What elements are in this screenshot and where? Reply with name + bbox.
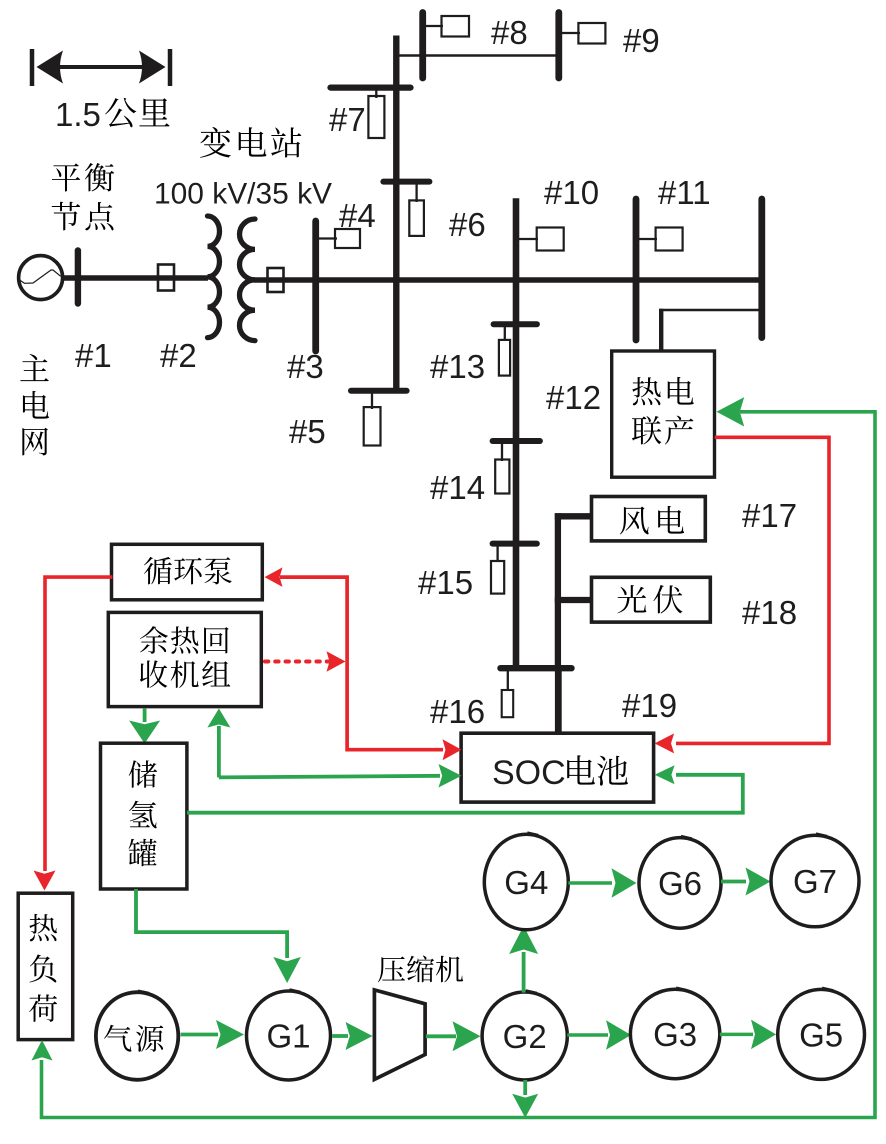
svg-text:G1: G1 bbox=[266, 1018, 310, 1055]
bus #5 bar bbox=[351, 388, 407, 394]
load #15 box bbox=[491, 561, 504, 594]
bus #16/#19 tick bar bbox=[501, 665, 572, 671]
label bian-dian-zhan (substation) bbox=[200, 127, 301, 158]
svg-text:#2: #2 bbox=[160, 337, 197, 374]
load #13 connector bbox=[504, 324, 506, 341]
load #6 connector bbox=[415, 182, 417, 202]
red wire pump to heat load bbox=[45, 577, 112, 871]
load #13 box bbox=[499, 340, 510, 376]
wire CHP to right bus bbox=[659, 309, 663, 352]
svg-text:#7: #7 bbox=[329, 101, 366, 138]
load #5 connector bbox=[371, 391, 373, 409]
load #11 box bbox=[656, 228, 683, 251]
svg-text:#6: #6 bbox=[449, 206, 486, 243]
transformer T1 winding left bbox=[208, 216, 220, 338]
green wire tank bottom to G1 bbox=[136, 889, 287, 958]
green wire+arrow up into waste-heat box bbox=[207, 709, 230, 778]
load #9 connector bbox=[559, 32, 580, 34]
load #7 box bbox=[368, 96, 384, 138]
SOC battery box bbox=[461, 733, 653, 802]
bus #13 tick bar bbox=[494, 321, 537, 327]
svg-text:#8: #8 bbox=[491, 14, 528, 51]
svg-text:SOC: SOC bbox=[492, 754, 566, 792]
svg-text:#17: #17 bbox=[742, 497, 797, 534]
bus #14 tick bar bbox=[493, 438, 540, 444]
green arrow G6 to G7 bbox=[721, 868, 771, 896]
vertical feeder wire bbox=[393, 36, 399, 392]
svg-text:1.5: 1.5 bbox=[55, 96, 101, 133]
load #14 connector bbox=[501, 441, 503, 461]
load #5 box bbox=[364, 407, 381, 445]
green wire to SOC left bbox=[219, 776, 440, 778]
CHP box re-dian-lian-chan bbox=[612, 351, 715, 477]
svg-text:#11: #11 bbox=[658, 174, 711, 211]
svg-text:#12: #12 bbox=[546, 379, 601, 416]
generator symbol (main grid) bbox=[19, 256, 63, 300]
green arrow G3 to G5 bbox=[720, 1020, 776, 1050]
svg-text:G5: G5 bbox=[799, 1016, 843, 1053]
green arrow G2 up to G4 bbox=[509, 926, 538, 993]
gas node G3 bbox=[630, 988, 719, 1079]
load #11 connector bbox=[636, 238, 657, 240]
wind box feng-dian bbox=[592, 497, 706, 541]
svg-text:#1: #1 bbox=[75, 337, 112, 374]
load #16 box bbox=[502, 690, 514, 717]
svg-text:#14: #14 bbox=[430, 469, 485, 506]
label 1.5 gongli bbox=[55, 96, 170, 133]
svg-text:#9: #9 bbox=[623, 22, 660, 59]
breaker square #2 bbox=[158, 265, 174, 291]
load #7 connector bbox=[375, 88, 377, 98]
green arrow into SOC right bbox=[655, 765, 675, 784]
label zhu-dian-wang (main grid) bbox=[20, 354, 49, 455]
red arrow into SOC right bbox=[655, 733, 675, 753]
red arrow into pump right bbox=[265, 567, 283, 587]
gas node G5 bbox=[778, 988, 865, 1080]
green arrow compressor to G2 bbox=[426, 1021, 481, 1051]
gas source circle qi-yuan bbox=[96, 991, 178, 1080]
PV box guang-fu bbox=[592, 577, 711, 622]
breaker square right of transformer bbox=[268, 268, 284, 292]
green arrow into heat load bottom bbox=[32, 1040, 53, 1061]
red arrow into heat load top bbox=[34, 871, 56, 891]
green arrow into SOC left bbox=[439, 764, 462, 788]
svg-text:G4: G4 bbox=[504, 864, 548, 901]
gas node G7 bbox=[771, 834, 859, 927]
green arrow G2 to G3 bbox=[567, 1020, 631, 1050]
bus #1 bar bbox=[75, 251, 81, 304]
svg-text:#18: #18 bbox=[742, 594, 797, 631]
pump box xun-huan-beng bbox=[112, 544, 263, 600]
svg-text:G2: G2 bbox=[503, 1018, 547, 1055]
green arrow waste-heat to hydrogen tank bbox=[129, 708, 160, 744]
load #4 connector bbox=[316, 237, 337, 239]
bus #7 tick bar bbox=[331, 84, 411, 90]
load #4 box bbox=[335, 229, 360, 248]
bus #15 tick bar bbox=[493, 541, 537, 547]
bus #8 bar bbox=[419, 13, 426, 79]
svg-text:#10: #10 bbox=[544, 174, 599, 211]
svg-text:#3: #3 bbox=[287, 348, 324, 385]
svg-text:G7: G7 bbox=[793, 863, 837, 900]
green arrow gas-source to G1 bbox=[181, 1020, 244, 1049]
bus #6 tick bar bbox=[383, 179, 429, 185]
red arrow into SOC left bbox=[443, 739, 462, 760]
gas node G1 bbox=[247, 990, 331, 1081]
svg-text:#15: #15 bbox=[418, 564, 473, 601]
transformer T1 winding right bbox=[240, 219, 256, 341]
wire transformer to bus 3 bbox=[254, 277, 762, 283]
svg-text:100 kV/35 kV: 100 kV/35 kV bbox=[154, 178, 332, 211]
load #6 box bbox=[409, 200, 424, 236]
load #8 box bbox=[442, 16, 470, 37]
green bottom return wire bbox=[42, 412, 876, 1118]
hydrogen tank box chu-qing-guan bbox=[101, 743, 187, 889]
load #9 box bbox=[578, 23, 605, 44]
scale bar 1.5km bbox=[32, 49, 170, 86]
right end bus bar bbox=[758, 199, 765, 338]
wire bus to SOC battery bbox=[555, 668, 562, 733]
svg-text:#16: #16 bbox=[430, 693, 485, 730]
gas node G2 bbox=[482, 991, 567, 1081]
feeder bus 10-13-14-15-16 vertical wire bbox=[513, 198, 520, 668]
label ya-suo-ji (compressor) bbox=[378, 956, 463, 983]
svg-text:G3: G3 bbox=[653, 1016, 697, 1053]
load #16 connector bbox=[507, 668, 509, 691]
svg-text:#13: #13 bbox=[430, 348, 485, 385]
svg-text:#4: #4 bbox=[339, 197, 376, 234]
load #10 connector bbox=[516, 238, 538, 240]
load #15 connector bbox=[496, 544, 498, 562]
green arrow G2 down to return wire bbox=[512, 1080, 538, 1118]
green arrow G4 to G6 bbox=[568, 868, 636, 898]
bus #9 bar bbox=[555, 13, 562, 79]
top tie line to bus 9 bbox=[396, 54, 559, 57]
waste heat recovery box yu-re-hui-shou-ji-zu bbox=[108, 612, 261, 706]
load #8 connector bbox=[423, 25, 443, 27]
svg-text:G6: G6 bbox=[658, 865, 702, 902]
bus #11 bar bbox=[633, 199, 640, 340]
heat load box re-fu-he bbox=[18, 893, 72, 1039]
green arrow into G1 top bbox=[273, 957, 301, 983]
label ping-heng-jie-dian (balance node) bbox=[52, 163, 115, 230]
green wire tank to SOC right (underpass) bbox=[187, 775, 743, 813]
wind/PV feeder wire bbox=[555, 513, 592, 668]
svg-text:#19: #19 bbox=[622, 687, 677, 724]
wire generator to transformer bbox=[62, 275, 208, 281]
red wire vertical to pump and SOC left bbox=[280, 577, 443, 750]
green arrow into CHP right bbox=[717, 397, 745, 426]
compressor trapezoid bbox=[374, 990, 425, 1080]
bus #3 bar bbox=[312, 221, 319, 351]
load #10 box bbox=[537, 228, 564, 251]
red dashed arrow waste-heat to red wire bbox=[265, 651, 346, 672]
svg-text:#5: #5 bbox=[289, 413, 326, 450]
red wire CHP to SOC right side bbox=[676, 437, 829, 743]
green arrow G1 to compressor bbox=[332, 1022, 372, 1050]
gas node G6 bbox=[639, 836, 721, 928]
gas node G4 bbox=[484, 833, 568, 930]
load #14 box bbox=[495, 460, 509, 494]
